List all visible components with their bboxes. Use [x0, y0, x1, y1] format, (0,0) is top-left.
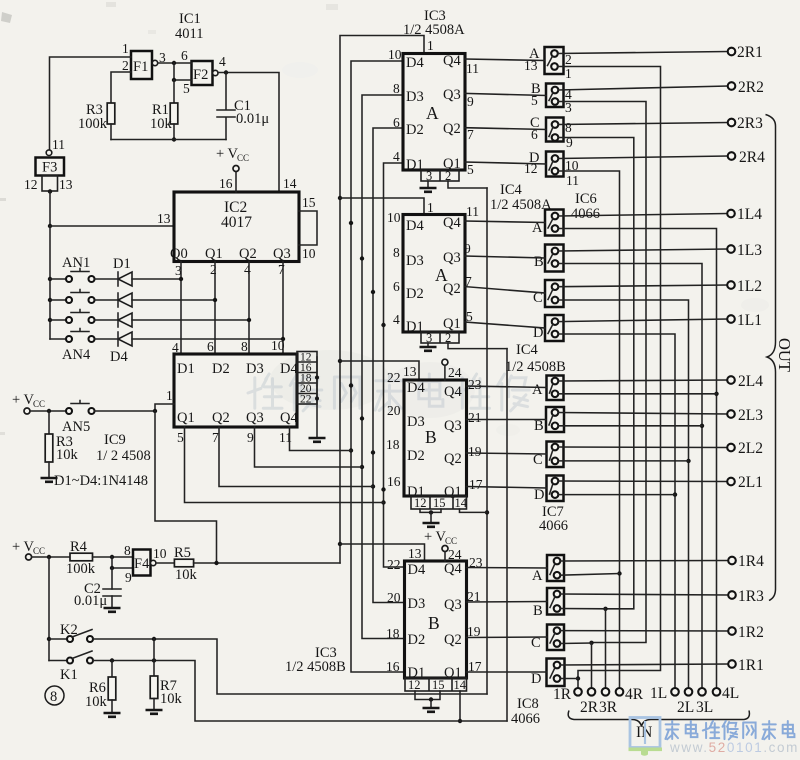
latch block A2 IC4 4508A: [403, 215, 465, 333]
svg-text:24: 24: [448, 365, 462, 380]
wire A2 pin2 to K1 vertical: [448, 343, 507, 349]
terminal 1R3: [728, 588, 764, 605]
wire A1.Q2 to IC6 C control: [465, 128, 546, 130]
node D2 to Q1: [213, 298, 217, 302]
svg-text:D2: D2: [406, 122, 424, 138]
svg-text:14: 14: [454, 678, 467, 692]
svg-text:8: 8: [393, 81, 400, 96]
wire IC9.Q1 to bus383: [185, 427, 384, 503]
svg-text:22: 22: [387, 557, 401, 572]
svg-text:3: 3: [426, 331, 432, 345]
svg-text:F3: F3: [42, 160, 57, 176]
svg-text:1/ 2 4508: 1/ 2 4508: [96, 448, 151, 464]
svg-text:IC4: IC4: [516, 342, 539, 358]
wire IC5 B to 3L bus: [558, 264, 702, 689]
svg-text:D4: D4: [408, 562, 426, 578]
wire data bus D2 x373: [373, 128, 404, 603]
node bus351 B1.D4: [349, 383, 353, 387]
nand gate F3: [36, 150, 65, 191]
wire IC7 A to 4L bus: [558, 393, 716, 395]
svg-text:D: D: [534, 487, 544, 503]
svg-text:8: 8: [393, 245, 400, 260]
resistor R6 10k: [85, 661, 116, 713]
svg-text:4R: 4R: [625, 686, 644, 703]
ground C2: [104, 608, 121, 612]
wire button column: [49, 226, 51, 339]
svg-text:2R: 2R: [580, 699, 599, 716]
svg-text:18: 18: [386, 626, 400, 641]
svg-text:2R3: 2R3: [737, 115, 763, 132]
analog switch IC7 A: [547, 376, 564, 401]
ground A1 pin3: [420, 181, 437, 192]
svg-text:A: A: [532, 568, 543, 584]
svg-text:D3: D3: [407, 414, 425, 430]
node D3 to Q2: [247, 318, 251, 322]
wire A2 pin1 tap: [340, 198, 424, 215]
svg-text:13: 13: [59, 177, 73, 192]
svg-text:1: 1: [427, 38, 434, 53]
node R6 top: [110, 658, 114, 662]
svg-text:11: 11: [466, 61, 479, 76]
B2 bottom tabs pins 12 15 14: [405, 678, 467, 692]
wire IC6 C drop to 3R bus: [558, 138, 634, 609]
terminal 2L input: [677, 688, 694, 716]
svg-text:1L2: 1L2: [737, 278, 762, 295]
svg-text:19: 19: [468, 444, 482, 459]
wire K1 vertical x507: [506, 349, 508, 721]
svg-text:6: 6: [393, 115, 400, 130]
wire strobe down to R5 line: [155, 411, 217, 563]
svg-text:AN1: AN1: [62, 255, 90, 271]
wire B2.Q2 to IC8 C control: [467, 636, 548, 639]
Vcc terminal R4 row: [12, 539, 45, 560]
terminal 1L1: [727, 312, 762, 329]
svg-text:Q3: Q3: [444, 597, 462, 613]
wire IC7 B to 3L bus: [558, 425, 702, 427]
svg-text:12: 12: [408, 678, 421, 692]
svg-text:11: 11: [52, 137, 65, 152]
node R7 crossing K1: [152, 658, 156, 662]
svg-text:4017: 4017: [221, 214, 252, 231]
svg-text:B: B: [534, 418, 544, 434]
svg-text:10k: 10k: [160, 691, 183, 707]
wire to F4 pin9: [112, 557, 133, 568]
svg-text:9: 9: [467, 94, 474, 109]
wire IC8 A to 4R bus: [560, 574, 619, 576]
node D1 to Q0: [179, 277, 183, 281]
svg-text:3L: 3L: [696, 699, 713, 716]
svg-text:Q2: Q2: [443, 281, 461, 297]
resistor R3 100k: [78, 102, 115, 132]
wire output 2R3: [558, 123, 727, 125]
wire output 1R3: [560, 594, 728, 595]
node strobe A2: [338, 196, 342, 200]
svg-text:17: 17: [469, 477, 483, 492]
wire IC8 D to 1R bus: [560, 678, 578, 680]
svg-text:B: B: [534, 254, 544, 270]
wire A1 pin2 to K2 vertical: [448, 181, 487, 188]
wire output 2L1: [558, 480, 727, 483]
wire B2.Q4 to IC8 A control: [467, 567, 548, 570]
node strobe join: [214, 561, 218, 565]
svg-text:10k: 10k: [175, 567, 198, 583]
svg-text:2: 2: [565, 52, 572, 67]
node R3b tap: [47, 409, 51, 413]
terminal 1L2: [727, 278, 762, 295]
svg-text:Q3: Q3: [443, 87, 461, 103]
nand gate F2: [192, 61, 219, 85]
svg-text:D1: D1: [113, 256, 131, 272]
A1 bottom tabs pins 3 2: [421, 169, 459, 183]
Vcc terminal AN5 row: [12, 392, 45, 414]
svg-text:Q2: Q2: [212, 410, 230, 426]
node 3L join IC7 B: [700, 424, 704, 428]
svg-text:8: 8: [50, 689, 57, 705]
wire IC9.Q3 to bus362: [255, 427, 363, 467]
svg-text:F1: F1: [133, 59, 148, 75]
wire output 1L2: [558, 285, 727, 287]
svg-text:Q2: Q2: [444, 632, 462, 648]
wire F2 out to IC2 pin14: [218, 73, 279, 193]
node F4 pin8: [110, 555, 114, 559]
svg-text:4: 4: [172, 340, 179, 355]
terminal 2R1: [728, 44, 763, 61]
svg-text:2R4: 2R4: [739, 149, 765, 166]
wire B2.Q1 to IC8 D control: [467, 671, 547, 673]
IC2 4017 counter: [174, 192, 299, 262]
wire 2R bus down: [591, 643, 593, 689]
svg-text:2L: 2L: [677, 699, 694, 716]
wire output 1L1: [558, 319, 727, 322]
node K column tap: [47, 555, 51, 559]
svg-text:1R: 1R: [553, 686, 572, 703]
wire A2.Q1 to control D: [465, 322, 545, 328]
svg-text:4L: 4L: [722, 685, 739, 702]
wire R1 bottom to rail: [173, 124, 175, 140]
svg-text:20: 20: [387, 590, 401, 605]
node strobe B1: [338, 359, 342, 363]
svg-text:23: 23: [468, 377, 482, 392]
node bus362 B1.D3: [360, 416, 364, 420]
wire IC7 D to 1L bus: [558, 494, 675, 496]
analog switch IC6 D: [546, 152, 564, 177]
wire output 1L3: [558, 249, 727, 251]
IN brace: [568, 711, 749, 727]
circled figure number 8: [45, 686, 64, 705]
svg-text:20: 20: [387, 403, 401, 418]
svg-text:D1~D4:1N4148: D1~D4:1N4148: [54, 473, 148, 489]
IC9 latch 4508: [174, 354, 297, 427]
svg-text:2L4: 2L4: [738, 373, 763, 390]
svg-text:D3: D3: [246, 361, 264, 377]
svg-text:D2: D2: [212, 361, 230, 377]
wire F3 to clock node: [49, 192, 51, 227]
analog switch IC7 C: [547, 442, 564, 468]
wire IC6 A drop to 1R bus: [558, 67, 661, 689]
node clock line: [48, 224, 52, 228]
switch K1: [49, 651, 93, 683]
wire F1 pin2 to R3 top: [111, 72, 131, 103]
svg-text:1: 1: [565, 66, 572, 81]
svg-text:1/2 4508B: 1/2 4508B: [505, 359, 566, 375]
svg-text:1: 1: [166, 388, 173, 403]
svg-text:15: 15: [433, 496, 446, 510]
svg-text:1R1: 1R1: [738, 657, 764, 674]
svg-text:D3: D3: [408, 596, 426, 612]
svg-text:13: 13: [157, 211, 171, 226]
node tab 18: [315, 376, 319, 380]
nand gate F4: [133, 550, 156, 576]
svg-text:D1: D1: [177, 361, 195, 377]
wire Q0 to IC9 pin4: [180, 262, 182, 355]
svg-text:AN4: AN4: [62, 347, 91, 363]
node row AN1: [48, 277, 52, 281]
svg-text:15: 15: [432, 678, 445, 692]
analog switch IC8 C: [547, 625, 564, 651]
svg-text:IC9: IC9: [104, 432, 126, 448]
svg-text:5: 5: [467, 162, 474, 177]
Vcc pin 24 B2: [424, 529, 462, 562]
svg-text:Q1: Q1: [443, 316, 461, 332]
svg-text:1L: 1L: [650, 685, 667, 702]
svg-text:10k: 10k: [85, 694, 108, 710]
wire IC5 A to 4L bus: [558, 229, 716, 689]
svg-text:D2: D2: [406, 286, 424, 302]
wire F1 out to F2 pin6: [158, 62, 192, 64]
wire output 2L3: [558, 413, 727, 415]
svg-text:12: 12: [414, 496, 427, 510]
terminal 2L1: [727, 474, 763, 491]
wire B2 pin14 to K1 line: [459, 691, 461, 721]
svg-text:8: 8: [124, 543, 131, 558]
svg-text:K2: K2: [60, 622, 78, 638]
wire output 2L4: [558, 380, 727, 381]
wire output 1R4: [560, 560, 728, 563]
svg-text:D: D: [531, 671, 541, 687]
switch K2: [49, 622, 93, 642]
diode D1: [95, 256, 182, 286]
node bus351 IC9.Q4: [349, 448, 353, 452]
wire F4 out to R5: [156, 562, 175, 564]
Vcc pin 24 B1: [442, 359, 462, 380]
svg-text:1/2 4508A: 1/2 4508A: [490, 197, 552, 213]
wire A1.Q4 to IC6 A control: [465, 59, 545, 61]
analog switch IC8 D: [547, 659, 565, 687]
svg-text:10k: 10k: [56, 447, 79, 463]
terminal 3L input: [696, 688, 713, 716]
ground R7: [146, 710, 163, 714]
wire B2 pin13 tap: [340, 544, 425, 561]
analog switch IC5 C: [545, 280, 564, 307]
node strobe B2: [338, 542, 342, 546]
terminal 1R4: [728, 553, 764, 570]
wire R4 to F4 inputs: [93, 556, 134, 558]
wire node to F2 pin5: [174, 63, 192, 80]
A2 bottom tabs pins 3 2: [421, 331, 459, 345]
svg-text:R4: R4: [70, 539, 88, 555]
svg-text:Q1: Q1: [205, 246, 223, 262]
svg-text:D4: D4: [407, 380, 425, 396]
svg-text:D4: D4: [406, 218, 424, 234]
terminal 1R input: [553, 686, 582, 703]
ground R6: [104, 713, 121, 717]
svg-text:8: 8: [241, 339, 248, 354]
resistor R5 10k: [174, 545, 198, 583]
svg-text:Q4: Q4: [443, 53, 461, 69]
svg-text:11: 11: [566, 173, 579, 188]
wire bottom rail R3 to C1: [111, 139, 226, 141]
wire B1.Q4 to IC7 A control: [467, 386, 547, 388]
svg-text:16: 16: [219, 176, 233, 191]
pushbutton AN5: [62, 401, 95, 436]
node bus373 B1.D2: [371, 450, 375, 454]
wire output 2R2: [558, 86, 727, 90]
svg-text:7: 7: [467, 127, 474, 142]
wire AN5 to IC9 pin1: [95, 404, 175, 411]
wire IC5 D to 1L bus: [558, 334, 675, 688]
svg-text:9: 9: [125, 570, 132, 585]
latch block B2 IC3 4508B: [405, 561, 467, 678]
svg-text:1/2 4508B: 1/2 4508B: [285, 659, 346, 675]
svg-text:IC1: IC1: [179, 11, 201, 27]
node B2 pin14 on K1 line: [458, 719, 462, 723]
node K2 row: [47, 637, 51, 641]
analog switch IC7 D: [547, 476, 564, 502]
node 4L join IC7 A: [714, 392, 718, 396]
wire node to R1 top: [173, 80, 175, 103]
wire B1.Q1 to IC7 D control: [467, 487, 547, 489]
wire clock to IC2 pin13: [50, 225, 174, 227]
wire A2.Q2 to control C: [465, 287, 545, 293]
svg-text:Q2: Q2: [443, 121, 461, 137]
svg-text:Q2: Q2: [239, 246, 257, 262]
resistor R7 10k: [150, 639, 182, 709]
svg-text:OUT: OUT: [775, 338, 794, 372]
svg-text:13: 13: [408, 546, 422, 561]
svg-text:10: 10: [388, 47, 402, 62]
svg-text:CC: CC: [237, 153, 249, 163]
svg-text:6: 6: [181, 48, 188, 63]
svg-text:22: 22: [387, 370, 401, 385]
node C1 tap: [224, 70, 228, 74]
svg-text:B: B: [425, 427, 437, 447]
wire Q3 to IC9 pin10: [282, 262, 284, 355]
node bus362 IC9.Q3: [360, 465, 364, 469]
ground B1 pins 12 15: [420, 509, 441, 527]
terminal 1R1: [728, 657, 764, 674]
svg-text:+ V: + V: [12, 392, 35, 408]
ground B2 pins 12 15: [415, 691, 440, 712]
wire Vcc column to switches: [48, 557, 50, 661]
svg-text:12: 12: [24, 177, 38, 192]
IC9 right tab pins 12 16 18 20 22: [297, 352, 317, 406]
analog switch IC5 A: [545, 210, 564, 236]
wire K1 to bottom run: [93, 661, 507, 722]
svg-text:+ V: + V: [424, 529, 447, 545]
wire output 2R1: [558, 52, 728, 54]
wire output 2L2: [558, 446, 727, 449]
diode D2: [95, 293, 216, 307]
svg-text:9: 9: [247, 430, 254, 445]
wire 3R bus down: [605, 609, 607, 688]
svg-text:1/2 4508A: 1/2 4508A: [403, 22, 465, 38]
svg-text:1R3: 1R3: [738, 588, 764, 605]
wire K2 vertical x487: [486, 188, 488, 694]
node bus351 A2.D4: [349, 221, 353, 225]
capacitor C2 0.01u: [74, 568, 121, 609]
analog switch IC6 C: [546, 118, 564, 142]
terminal 4R input: [616, 686, 644, 703]
svg-text:5: 5: [177, 430, 184, 445]
wire strobe bus x340: [340, 36, 424, 564]
node bus362 A2.D3: [360, 256, 364, 260]
pushbutton AN1: [50, 255, 95, 282]
diode D3: [95, 313, 250, 327]
watermark logo box: [629, 718, 663, 756]
svg-text:1L3: 1L3: [737, 242, 762, 259]
svg-text:7: 7: [278, 262, 285, 277]
svg-text:D3: D3: [406, 89, 424, 105]
wire IC9 tabs to ground: [316, 357, 318, 437]
svg-text:2R1: 2R1: [737, 44, 763, 61]
node tab 20: [315, 397, 319, 401]
svg-text:D2: D2: [407, 448, 425, 464]
terminal 1R2: [728, 624, 764, 641]
svg-text:4: 4: [393, 149, 400, 164]
wire K2 to bottom run: [93, 639, 487, 694]
ground IC9 tabs: [309, 438, 326, 442]
node bus383 IC9.Q1: [381, 500, 385, 504]
pushbutton AN4: [50, 329, 95, 364]
terminal 3R input: [599, 688, 618, 716]
svg-text:3: 3: [426, 169, 432, 183]
node 1L join IC7 D: [673, 492, 677, 496]
svg-text:14: 14: [283, 176, 297, 191]
wire Q2 to IC9 pin8: [248, 262, 250, 355]
svg-text:+ V: + V: [216, 146, 239, 162]
watermark site name: [665, 721, 794, 740]
OUT brace: [766, 115, 776, 601]
wire A1.Q1 to IC6 D control: [465, 162, 546, 164]
diode D4: [95, 332, 284, 365]
svg-text:1L1: 1L1: [737, 312, 762, 329]
svg-text:R5: R5: [174, 545, 191, 561]
wire IC6 B drop to 2R bus: [558, 102, 646, 643]
nand gate F1: [131, 51, 158, 79]
wire IC9.Q2 to bus373: [219, 427, 373, 487]
node 4R join IC8 A: [617, 571, 621, 575]
analog switch IC6 A: [545, 47, 564, 74]
svg-text:4: 4: [219, 54, 226, 69]
pushbutton AN3: [50, 310, 95, 324]
wire B1.Q2 to IC7 C control: [467, 453, 547, 454]
svg-text:CC: CC: [33, 546, 45, 556]
svg-text:2: 2: [122, 58, 129, 73]
svg-text:100k: 100k: [66, 561, 96, 577]
svg-text:4011: 4011: [175, 26, 203, 42]
resistor R1 10k: [150, 102, 178, 132]
svg-text:4066: 4066: [511, 711, 540, 727]
ground R3b: [41, 478, 58, 482]
svg-text:K1: K1: [60, 667, 78, 683]
svg-text:10k: 10k: [150, 116, 173, 132]
svg-text:3R: 3R: [599, 699, 618, 716]
svg-text:F2: F2: [193, 67, 208, 83]
resistor R3b 10k: [45, 411, 78, 477]
svg-text:D2: D2: [408, 632, 426, 648]
wire Q1 to IC9 pin6: [214, 262, 216, 355]
svg-text:IC4: IC4: [500, 182, 523, 198]
